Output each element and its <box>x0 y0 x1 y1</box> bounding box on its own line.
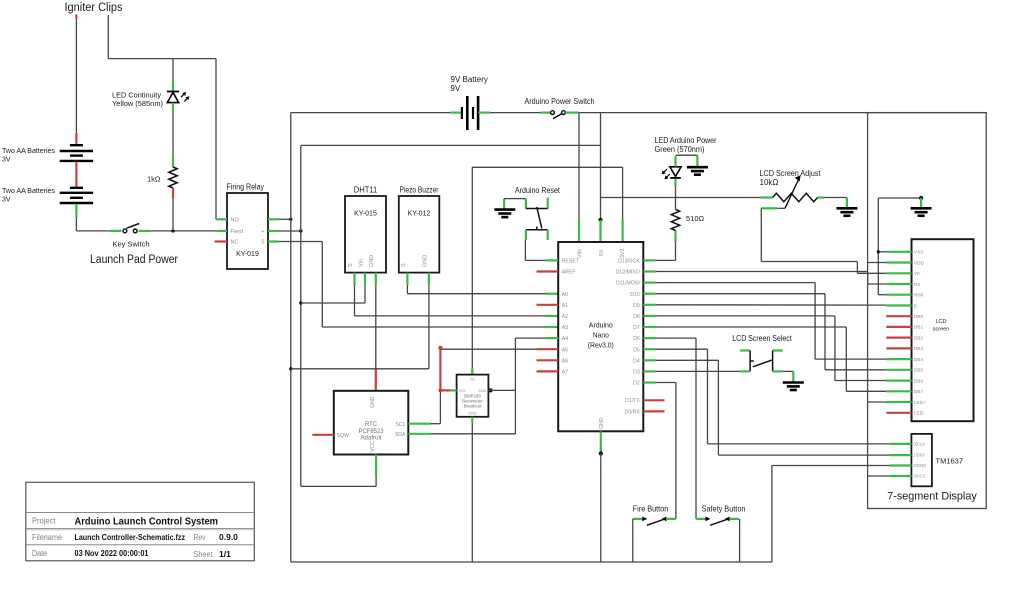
svg-text:510Ω: 510Ω <box>686 214 705 223</box>
svg-text:D13/SCK: D13/SCK <box>618 259 640 265</box>
svg-text:GND: GND <box>468 412 477 416</box>
svg-text:RTC: RTC <box>365 422 378 428</box>
svg-text:3V3: 3V3 <box>620 249 626 258</box>
svg-text:Project: Project <box>32 517 56 526</box>
svg-text:SCL: SCL <box>459 389 466 393</box>
svg-text:LCD Screen Adjust: LCD Screen Adjust <box>760 169 822 178</box>
svg-text:9V Battery: 9V Battery <box>451 75 488 84</box>
svg-text:D3: D3 <box>633 370 640 376</box>
svg-text:LED+: LED+ <box>914 400 926 406</box>
svg-text:DB5: DB5 <box>914 368 924 374</box>
svg-text:Vin: Vin <box>359 259 365 267</box>
svg-text:Date: Date <box>32 549 47 558</box>
svg-text:KY-019: KY-019 <box>236 251 259 258</box>
svg-text:VIN: VIN <box>577 249 583 258</box>
svg-text:A1: A1 <box>562 303 568 309</box>
svg-text:5V: 5V <box>599 249 605 256</box>
svg-text:GND: GND <box>369 255 375 267</box>
svg-text:LED-: LED- <box>914 411 925 417</box>
svg-text:Igniter Clips: Igniter Clips <box>65 2 123 14</box>
svg-text:V0: V0 <box>914 271 920 277</box>
svg-text:GND: GND <box>599 417 605 429</box>
svg-text:A2: A2 <box>562 314 568 320</box>
svg-text:RESET: RESET <box>562 259 580 265</box>
svg-text:Arduino Launch Control System: Arduino Launch Control System <box>75 516 219 528</box>
svg-text:D5: D5 <box>633 347 640 353</box>
svg-text:DB1: DB1 <box>914 325 924 331</box>
svg-text:DB2: DB2 <box>914 335 924 341</box>
svg-text:LCD Screen Select: LCD Screen Select <box>732 334 792 343</box>
svg-text:7-segment Display: 7-segment Display <box>887 491 977 503</box>
svg-text:A0: A0 <box>562 292 568 298</box>
svg-text:LCD: LCD <box>935 319 946 325</box>
svg-text:D10: D10 <box>630 292 640 298</box>
svg-text:TM1637: TM1637 <box>936 457 964 466</box>
svg-text:Sheet: Sheet <box>194 550 214 559</box>
svg-text:NO: NO <box>231 218 240 224</box>
svg-text:DB4: DB4 <box>914 357 924 363</box>
svg-text:PCF8523: PCF8523 <box>359 429 385 435</box>
svg-text:1/1: 1/1 <box>219 549 231 559</box>
svg-text:VSS: VSS <box>914 250 924 256</box>
svg-text:A3: A3 <box>562 325 568 331</box>
svg-text:Launch Controller-Schematic.fz: Launch Controller-Schematic.fzz <box>75 532 186 542</box>
svg-text:KY-015: KY-015 <box>354 211 377 218</box>
svg-text:2/GND: 2/GND <box>913 463 926 468</box>
svg-text:Piezo Buzzer: Piezo Buzzer <box>400 185 439 195</box>
svg-text:Rev: Rev <box>194 533 206 542</box>
svg-text:KY-012: KY-012 <box>408 211 431 218</box>
svg-text:E: E <box>914 303 917 309</box>
svg-text:Arduino Reset: Arduino Reset <box>515 186 561 195</box>
svg-text:Filename: Filename <box>32 533 62 542</box>
svg-text:RS: RS <box>914 282 921 288</box>
svg-text:3V: 3V <box>2 196 11 203</box>
svg-text:D8: D8 <box>633 314 640 320</box>
svg-text:Launch Pad Power: Launch Pad Power <box>90 254 178 266</box>
svg-text:SCL: SCL <box>395 422 405 428</box>
svg-text:D1/TX: D1/TX <box>625 398 640 404</box>
svg-text:D0/RX: D0/RX <box>625 409 641 415</box>
svg-text:A7: A7 <box>562 370 568 376</box>
svg-text:A6: A6 <box>562 358 568 364</box>
svg-text:D7: D7 <box>633 325 640 331</box>
svg-text:A5: A5 <box>562 347 568 353</box>
svg-text:D12/MISO: D12/MISO <box>616 270 640 276</box>
svg-text:Feed: Feed <box>231 229 244 235</box>
svg-text:1kΩ: 1kΩ <box>147 175 161 184</box>
svg-text:3/VCC: 3/VCC <box>913 474 925 479</box>
svg-text:Fire Button: Fire Button <box>633 505 669 514</box>
svg-text:(Rev3.0): (Rev3.0) <box>588 341 614 350</box>
svg-text:3V: 3V <box>2 157 11 164</box>
svg-text:DB7: DB7 <box>914 389 924 395</box>
svg-text:D11/MOSI: D11/MOSI <box>616 281 640 287</box>
svg-text:10kΩ: 10kΩ <box>760 178 779 187</box>
svg-text:DB0: DB0 <box>914 314 924 320</box>
svg-text:Nano: Nano <box>593 331 609 340</box>
svg-text:SDA: SDA <box>395 432 406 438</box>
svg-text:Firing Relay: Firing Relay <box>227 183 265 192</box>
svg-text:S: S <box>261 240 265 246</box>
svg-text:Yellow (585nm): Yellow (585nm) <box>112 99 163 108</box>
svg-text:Green (570nm): Green (570nm) <box>655 145 705 154</box>
svg-text:0/CLK: 0/CLK <box>913 442 925 447</box>
svg-text:NC: NC <box>231 240 239 246</box>
svg-text:Key Switch: Key Switch <box>113 240 150 249</box>
svg-text:0.9.0: 0.9.0 <box>219 532 238 542</box>
svg-text:DHT11: DHT11 <box>354 185 378 195</box>
svg-text:D4: D4 <box>633 358 640 364</box>
svg-text:Safety Button: Safety Button <box>702 505 746 514</box>
svg-text:DB3: DB3 <box>914 346 924 352</box>
svg-text:VDD: VDD <box>914 260 925 266</box>
svg-text:GND: GND <box>422 255 428 267</box>
svg-text:Breakout: Breakout <box>464 404 482 409</box>
svg-text:D9: D9 <box>633 303 640 309</box>
svg-text:9V: 9V <box>451 84 461 93</box>
svg-text:S: S <box>401 263 407 267</box>
svg-text:DB6: DB6 <box>914 378 924 384</box>
svg-text:VCC: VCC <box>370 441 376 452</box>
svg-text:D2: D2 <box>633 381 640 387</box>
svg-text:D6: D6 <box>633 336 640 342</box>
svg-text:S: S <box>348 263 354 267</box>
svg-text:Adafruit: Adafruit <box>361 436 382 442</box>
svg-text:+: + <box>261 229 264 235</box>
svg-text:SQW: SQW <box>337 433 349 439</box>
svg-text:GND: GND <box>370 396 376 408</box>
svg-text:1/DIO: 1/DIO <box>913 453 925 458</box>
svg-text:Arduino: Arduino <box>589 321 613 330</box>
svg-text:screen: screen <box>933 327 950 333</box>
svg-text:AREF: AREF <box>562 270 576 276</box>
svg-text:SDA: SDA <box>478 389 486 393</box>
svg-text:Vin: Vin <box>470 378 475 382</box>
svg-text:R/W: R/W <box>914 293 924 299</box>
svg-text:Arduino Power Switch: Arduino Power Switch <box>525 97 595 106</box>
svg-text:Two AA Batteries: Two AA Batteries <box>2 148 55 155</box>
svg-text:A4: A4 <box>562 336 568 342</box>
svg-text:03 Nov 2022 00:00:01: 03 Nov 2022 00:00:01 <box>75 548 149 558</box>
svg-text:Two AA Batteries: Two AA Batteries <box>2 188 55 195</box>
svg-text:LED Arduino Power: LED Arduino Power <box>655 136 717 145</box>
